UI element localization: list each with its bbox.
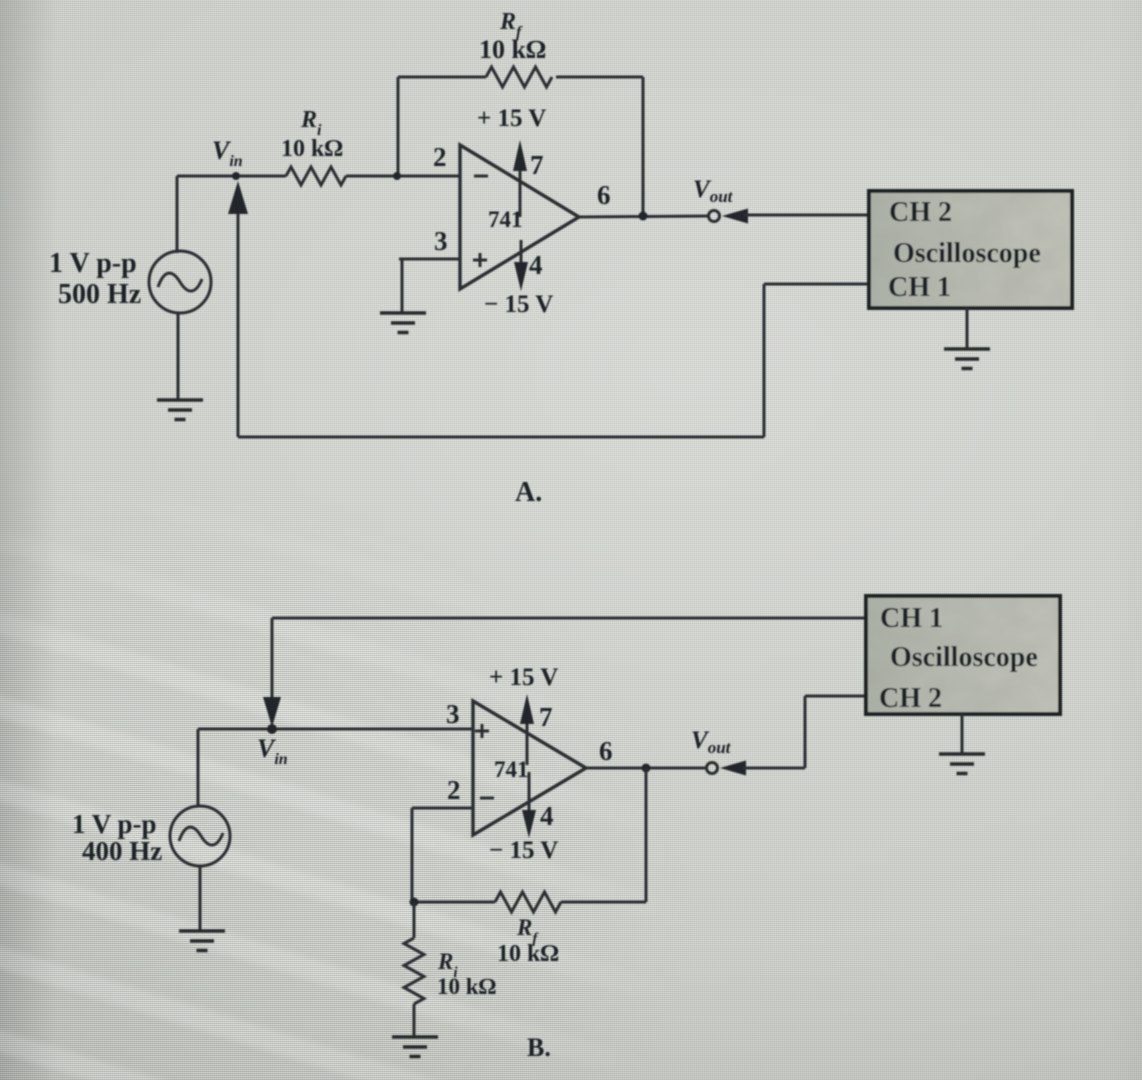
svg-text:Vout: Vout [693,176,734,206]
svg-text:1 V p-p: 1 V p-p [72,809,157,839]
svg-text:741: 741 [488,207,523,232]
svg-text:Vin: Vin [212,136,243,170]
svg-text:CH 1: CH 1 [888,272,951,303]
svg-text:10 kΩ: 10 kΩ [281,136,343,162]
svg-text:+ 15 V: + 15 V [477,105,546,132]
svg-text:7: 7 [530,150,544,180]
svg-text:CH 2: CH 2 [889,197,952,228]
svg-text:Oscilloscope: Oscilloscope [893,238,1041,269]
svg-text:4: 4 [540,801,554,831]
svg-text:Vout: Vout [691,727,732,757]
svg-text:2: 2 [447,775,461,805]
svg-text:Ri: Ri [300,107,322,139]
svg-text:B.: B. [527,1033,551,1062]
svg-text:3: 3 [446,699,460,729]
svg-text:741: 741 [494,757,529,782]
svg-text:3: 3 [434,226,448,256]
svg-text:CH 1: CH 1 [880,603,943,634]
svg-text:− 15 V: − 15 V [484,291,553,318]
svg-text:6: 6 [597,180,611,210]
svg-text:2: 2 [433,142,447,172]
svg-text:10 kΩ: 10 kΩ [437,974,497,999]
svg-text:10 kΩ: 10 kΩ [497,941,559,967]
svg-text:A.: A. [515,477,542,508]
svg-text:400 Hz: 400 Hz [82,836,162,866]
svg-text:500 Hz: 500 Hz [58,279,141,310]
svg-text:1 V p-p: 1 V p-p [49,248,137,279]
svg-text:6: 6 [599,736,613,766]
svg-text:10 kΩ: 10 kΩ [479,35,546,64]
svg-text:Vin: Vin [257,734,288,768]
svg-text:CH 2: CH 2 [879,683,942,714]
svg-text:4: 4 [529,250,543,280]
svg-text:− 15 V: − 15 V [489,837,558,864]
svg-text:Oscilloscope: Oscilloscope [890,642,1038,673]
svg-text:7: 7 [539,702,553,732]
svg-text:+ 15 V: + 15 V [489,664,558,691]
